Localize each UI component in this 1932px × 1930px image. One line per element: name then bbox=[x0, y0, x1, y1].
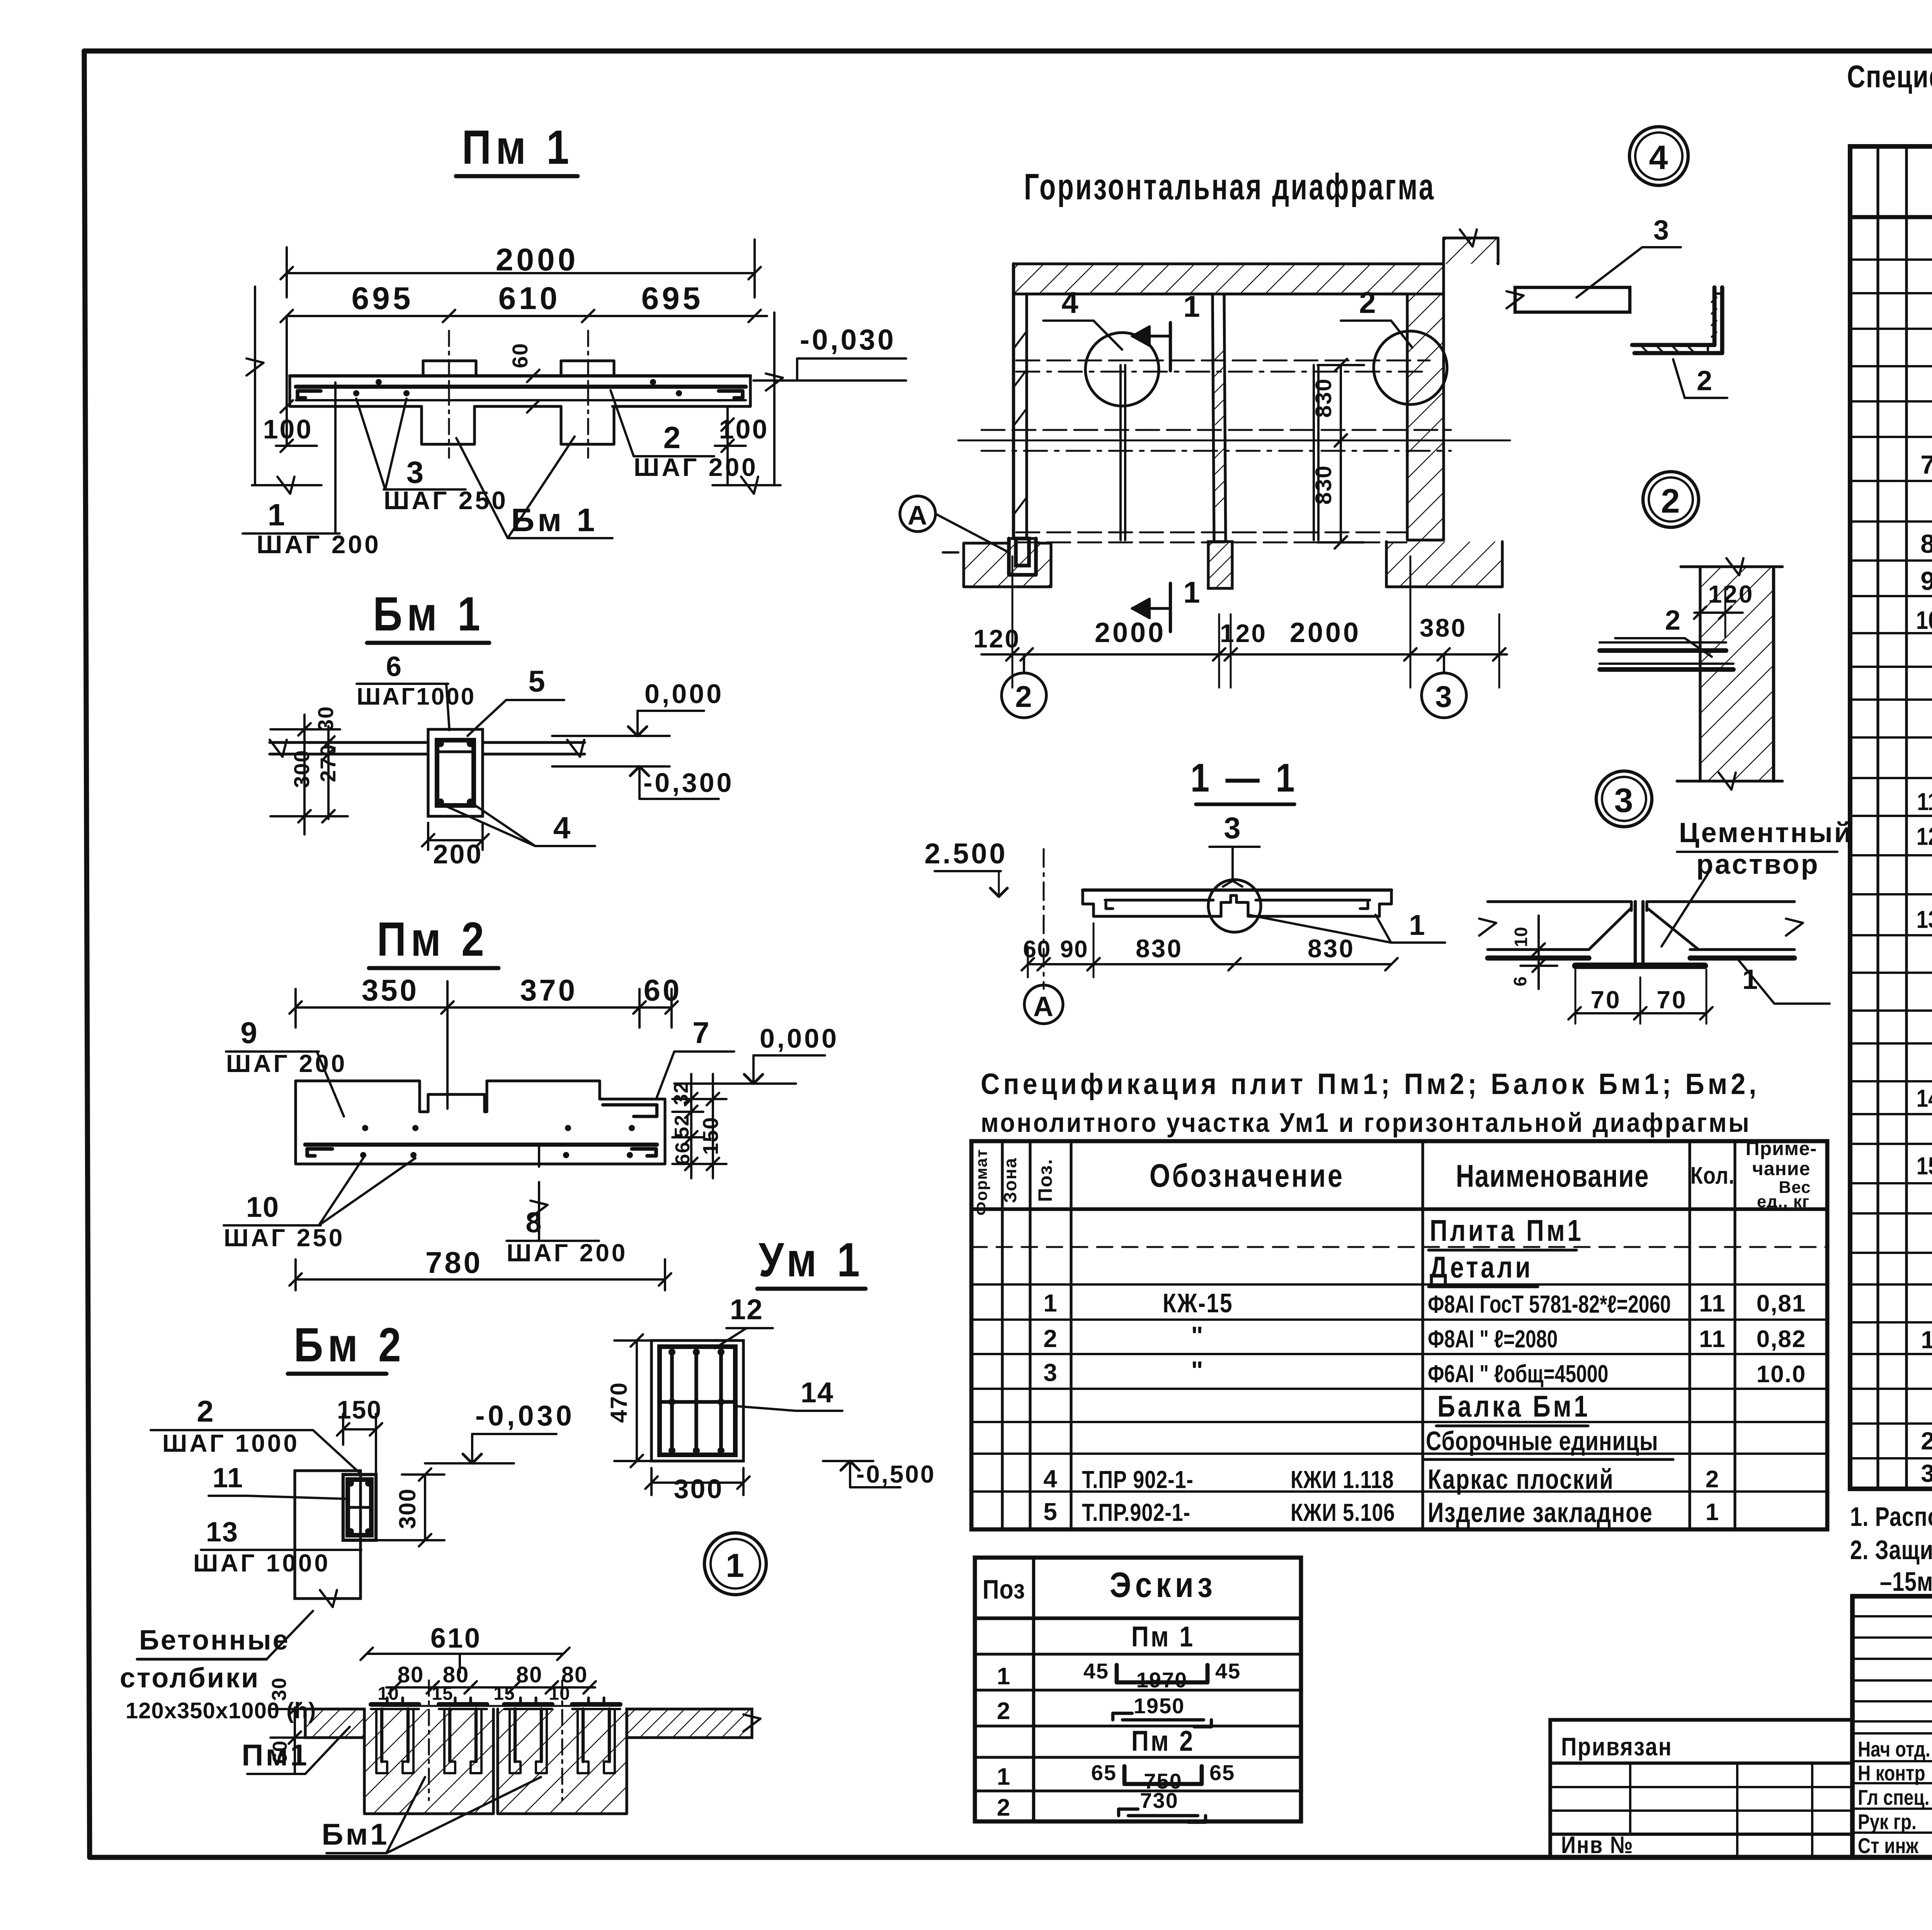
section 1-1 slab plates bbox=[1083, 890, 1391, 916]
label Бм1 detail bbox=[321, 1777, 541, 1853]
svg-text:КЖИ 5.106: КЖИ 5.106 bbox=[1291, 1499, 1395, 1526]
big row 9 bbox=[1920, 566, 1932, 596]
detail dims 30 60 left bbox=[268, 1677, 321, 1773]
svg-text:Н контр: Н контр bbox=[1858, 1761, 1925, 1785]
big row 12 изделие закладное МН557 bbox=[1917, 814, 1932, 857]
svg-text:Детали: Детали bbox=[1430, 1250, 1533, 1284]
detail 4 plate bbox=[1507, 287, 1630, 312]
svg-text:Пм 1: Пм 1 bbox=[1131, 1621, 1195, 1653]
level 0,000 bbox=[552, 679, 724, 736]
svg-text:695: 695 bbox=[641, 281, 704, 316]
svg-text:10.0: 10.0 bbox=[1757, 1361, 1806, 1388]
svg-text:14: 14 bbox=[1917, 1084, 1932, 1112]
svg-text:-0,030: -0,030 bbox=[800, 323, 896, 356]
svg-text:КЖИ 1.118: КЖИ 1.118 bbox=[1291, 1466, 1394, 1493]
anchor embed 1 in beam Бм1 bbox=[371, 1698, 419, 1773]
label 1 section 1-1 bbox=[1248, 909, 1445, 943]
cement joint mortar wedge left bbox=[1589, 908, 1631, 950]
detail mark circle 4 bbox=[1629, 127, 1688, 185]
svg-text:200: 200 bbox=[433, 839, 483, 869]
label 2 ШАГ 1000 Бм2 bbox=[151, 1394, 359, 1473]
plate Пм1 top stub left bbox=[423, 361, 476, 376]
svg-text:3: 3 bbox=[1043, 1359, 1058, 1386]
svg-text:70: 70 bbox=[1590, 986, 1621, 1014]
svg-text:2: 2 bbox=[1359, 285, 1376, 319]
svg-text:ШАГ 250: ШАГ 250 bbox=[224, 1224, 345, 1252]
section mark 1 bottom bbox=[1132, 575, 1201, 632]
cement joint dims 6 10 bbox=[1510, 916, 1557, 989]
svg-text:15: 15 bbox=[432, 1684, 453, 1704]
svg-text:150: 150 bbox=[698, 1116, 723, 1155]
level -0,300 bbox=[552, 766, 734, 799]
svg-text:1: 1 bbox=[268, 498, 286, 532]
svg-text:830: 830 bbox=[1308, 934, 1355, 963]
detail mark circle 1 bbox=[704, 1533, 766, 1595]
plate Пм1 slab outline bbox=[290, 376, 750, 406]
svg-text:610: 610 bbox=[498, 281, 561, 316]
svg-text:2: 2 bbox=[1665, 605, 1681, 636]
svg-text:10: 10 bbox=[549, 1684, 570, 1704]
label 14 Ум1 bbox=[736, 1376, 842, 1411]
svg-text:Бетонные: Бетонные bbox=[139, 1625, 290, 1656]
svg-text:2: 2 bbox=[997, 1698, 1011, 1724]
detail beam Бм1 right hatched bbox=[498, 1709, 627, 1814]
svg-text:1: 1 bbox=[997, 1764, 1011, 1790]
svg-text:100: 100 bbox=[719, 414, 769, 444]
svg-text:Ф8АI " ℓ=2080: Ф8АI " ℓ=2080 bbox=[1428, 1325, 1558, 1353]
svg-text:15: 15 bbox=[1917, 1152, 1932, 1180]
note 2 защитный слой bbox=[1850, 1535, 1932, 1565]
centerline stub right bbox=[587, 331, 589, 458]
plan footing right hatched bbox=[1386, 542, 1502, 587]
svg-text:695: 695 bbox=[352, 281, 414, 316]
svg-text:Приме-: Приме- bbox=[1746, 1138, 1817, 1159]
svg-text:Зона: Зона bbox=[1000, 1157, 1020, 1203]
plan middle wall bbox=[1213, 294, 1226, 540]
detail centerline right beam bbox=[561, 1680, 563, 1800]
svg-text:2.500: 2.500 bbox=[924, 838, 1007, 870]
svg-text:3: 3 bbox=[1614, 781, 1634, 819]
plate Пм1 view title bbox=[456, 121, 578, 176]
svg-text:830: 830 bbox=[1311, 378, 1336, 418]
dim 300 Бм2 bbox=[371, 1468, 444, 1546]
svg-text:12: 12 bbox=[730, 1293, 763, 1325]
big row 11 каркас bbox=[1917, 786, 1932, 817]
plan detail circle at 4 bbox=[1043, 285, 1159, 406]
svg-text:-0,500: -0,500 bbox=[856, 1460, 935, 1488]
svg-text:Горизонтальная диафрагма: Горизонтальная диафрагма bbox=[1024, 166, 1435, 207]
svg-text:66: 66 bbox=[672, 1141, 694, 1165]
svg-text:13: 13 bbox=[1917, 906, 1932, 933]
big row 2 ГОСТ 8509-72 bbox=[1921, 1426, 1932, 1456]
mid table row Детали bbox=[1429, 1250, 1538, 1287]
plan rebar dashed band top bbox=[1016, 360, 1430, 372]
svg-text:10: 10 bbox=[1511, 926, 1531, 947]
plan vertical tube left room bbox=[1121, 365, 1125, 540]
sketch row 2b: 730 bbox=[997, 1788, 1206, 1822]
section mark 1 top bbox=[1132, 289, 1201, 371]
mid table row Балка Бм1 bbox=[1436, 1390, 1590, 1426]
svg-text:ШАГ 1000: ШАГ 1000 bbox=[193, 1549, 330, 1577]
svg-text:Каркас плоский: Каркас плоский bbox=[1428, 1464, 1614, 1495]
svg-text:30: 30 bbox=[268, 1677, 291, 1701]
sketch table grid bbox=[975, 1558, 1301, 1821]
label 11 Бм2 bbox=[209, 1463, 348, 1499]
svg-text:830: 830 bbox=[1136, 934, 1183, 963]
beam Бм2 rebar cage bbox=[343, 1475, 376, 1540]
note 1 газовые трубки bbox=[1850, 1502, 1932, 1532]
svg-text:Ум 1: Ум 1 bbox=[759, 1233, 864, 1287]
detail 2 label 2 bbox=[1615, 605, 1712, 657]
plan dim 830 830 vertical bbox=[1311, 359, 1364, 549]
label Бм1 leader bbox=[456, 437, 612, 538]
svg-text:380: 380 bbox=[1420, 613, 1467, 642]
label 4 leader Бм1 bbox=[444, 805, 595, 846]
svg-text:ед., кг: ед., кг bbox=[1757, 1192, 1810, 1211]
big spec table title bbox=[1847, 59, 1932, 132]
signature rows texts bbox=[1858, 1737, 1932, 1858]
svg-text:3: 3 bbox=[1653, 215, 1670, 246]
svg-text:Бм1: Бм1 bbox=[321, 1817, 389, 1851]
plate Пм2 view title bbox=[369, 913, 498, 968]
svg-text:Наименование: Наименование bbox=[1456, 1158, 1649, 1194]
svg-text:Пм 1: Пм 1 bbox=[462, 121, 573, 174]
axis А circle section 1-1 bbox=[1024, 985, 1063, 1024]
svg-text:2: 2 bbox=[1043, 1325, 1058, 1352]
svg-text:Гл спец.: Гл спец. bbox=[1858, 1786, 1929, 1809]
svg-text:13: 13 bbox=[206, 1517, 238, 1548]
svg-text:4: 4 bbox=[1649, 138, 1669, 177]
detail 4 label 2 bbox=[1673, 359, 1727, 398]
svg-text:3: 3 bbox=[1224, 811, 1241, 845]
svg-text:ШАГ 200: ШАГ 200 bbox=[507, 1239, 628, 1267]
rebar mesh Пм2 bbox=[305, 1125, 657, 1158]
left dim chain Пм1 bbox=[247, 287, 321, 494]
svg-text:Сборочные единицы: Сборочные единицы bbox=[1426, 1426, 1658, 1456]
mid table row 5 изделие bbox=[1043, 1497, 1719, 1528]
svg-text:КЖ-15: КЖ-15 bbox=[1163, 1288, 1233, 1318]
axis А circle and line bbox=[900, 496, 1009, 552]
plan left wall bbox=[1014, 264, 1027, 539]
plan top wall hatched bbox=[1014, 264, 1444, 294]
label 8 ШАГ 200 Пм2 bbox=[507, 1145, 628, 1267]
svg-text:Пм1: Пм1 bbox=[241, 1738, 309, 1772]
svg-text:0,81: 0,81 bbox=[1757, 1290, 1806, 1317]
svg-text:80: 80 bbox=[516, 1662, 543, 1687]
beam Бм2 section title bbox=[288, 1318, 406, 1374]
svg-text:раствор: раствор bbox=[1696, 849, 1820, 880]
svg-text:4: 4 bbox=[1043, 1465, 1058, 1493]
cement joint dim 70 70 bbox=[1568, 970, 1713, 1024]
dim chain Бм1 30 270 300 bbox=[270, 706, 348, 834]
svg-text:1: 1 bbox=[1706, 1499, 1719, 1526]
svg-text:100: 100 bbox=[263, 414, 313, 444]
grid bubble 3 bbox=[1422, 654, 1466, 718]
sketch table header bbox=[983, 1565, 1216, 1605]
svg-text:Нач отд.: Нач отд. bbox=[1858, 1737, 1930, 1761]
label 13 ШАГ 1000 Бм2 bbox=[193, 1517, 361, 1577]
sketch row Пм 1 bbox=[1131, 1621, 1195, 1653]
svg-text:300: 300 bbox=[674, 1474, 724, 1504]
svg-text:ШАГ 200: ШАГ 200 bbox=[226, 1050, 347, 1077]
plan top right wall corner bbox=[1444, 229, 1498, 264]
Ум1 rebar cage bbox=[660, 1347, 735, 1455]
mid table row Плита Пм1 bbox=[1429, 1214, 1583, 1250]
mid table row Сборочные единицы bbox=[1425, 1426, 1673, 1459]
level -0,030 Бм2 bbox=[425, 1400, 575, 1463]
svg-text:370: 370 bbox=[520, 973, 577, 1007]
beam Бм1 rebar cage bbox=[437, 740, 474, 805]
plan footing middle hatched bbox=[1208, 542, 1232, 588]
svg-text:ШАГ 200: ШАГ 200 bbox=[634, 453, 758, 481]
cement joint slab top surface bbox=[1479, 902, 1803, 936]
label 3 section 1-1 bbox=[1209, 811, 1260, 887]
svg-text:Привязан: Привязан bbox=[1561, 1733, 1672, 1761]
svg-text:12: 12 bbox=[1917, 822, 1932, 850]
big row 7 ГОСТ 8240-72 bbox=[1920, 439, 1932, 484]
svg-text:1. Расположение газовых трубок: 1. Расположение газовых трубок в плите П… bbox=[1850, 1502, 1932, 1532]
big row 10 bbox=[1916, 606, 1932, 634]
svg-text:Рук гр.: Рук гр. bbox=[1858, 1810, 1917, 1834]
slab lines left of beam bbox=[270, 740, 428, 757]
big row 8 bbox=[1920, 529, 1932, 559]
label Цементный раствор bbox=[1662, 817, 1853, 946]
svg-text:1: 1 bbox=[1409, 909, 1425, 941]
signature table grid bbox=[1852, 1596, 1932, 1857]
plan detail circle at 2 bbox=[1341, 285, 1447, 404]
svg-text:120: 120 bbox=[973, 624, 1020, 653]
svg-text:270: 270 bbox=[316, 744, 340, 782]
plan rebar dashed band bottom bbox=[1016, 532, 1406, 542]
svg-text:Обозначение: Обозначение bbox=[1150, 1158, 1344, 1194]
note 2 line 2 bbox=[1880, 1567, 1932, 1597]
detail mark circle 2 bbox=[1643, 472, 1699, 527]
dim 300 Ум1 bbox=[645, 1468, 750, 1504]
anchor embed 2 in beam Бм1 bbox=[439, 1698, 487, 1773]
svg-text:5: 5 bbox=[528, 664, 546, 698]
svg-text:ШАГ 1000: ШАГ 1000 bbox=[162, 1429, 299, 1457]
svg-text:0,82: 0,82 bbox=[1757, 1326, 1806, 1352]
svg-text:А: А bbox=[908, 500, 928, 530]
svg-text:15: 15 bbox=[493, 1684, 515, 1704]
concrete post outline Бм2 bbox=[295, 1471, 361, 1607]
plan right wall hatched bbox=[1407, 294, 1444, 540]
detail slab Пм1 left hatched bbox=[305, 1709, 364, 1738]
svg-text:1: 1 bbox=[997, 1663, 1011, 1690]
svg-text:Пм 2: Пм 2 bbox=[1131, 1725, 1195, 1757]
label 7 leader Пм2 bbox=[657, 1016, 734, 1097]
plan interior room right outline bbox=[1226, 292, 1407, 295]
plan rebar dashed band middle bbox=[958, 430, 1510, 451]
svg-text:11: 11 bbox=[1699, 1326, 1726, 1352]
detail 4 angle profile bbox=[1632, 287, 1722, 353]
svg-text:Кол.: Кол. bbox=[1690, 1162, 1735, 1189]
detail dims 10 15 15 10 bbox=[378, 1684, 580, 1706]
level -0,500 Ум1 bbox=[823, 1460, 935, 1488]
svg-text:10: 10 bbox=[246, 1191, 279, 1223]
svg-text:4: 4 bbox=[553, 810, 571, 845]
detail centerline left beam bbox=[428, 1680, 430, 1800]
sketch row 2: 1950 bbox=[997, 1694, 1211, 1727]
svg-text:-0,300: -0,300 bbox=[643, 768, 734, 798]
big row 3 ГОСТ 103-76 bbox=[1921, 1459, 1932, 1488]
svg-text:2000: 2000 bbox=[1095, 617, 1166, 648]
mid table row 3 bbox=[1043, 1356, 1806, 1388]
svg-text:780: 780 bbox=[425, 1245, 483, 1279]
svg-text:2: 2 bbox=[1015, 680, 1032, 714]
svg-text:-0,030: -0,030 bbox=[475, 1400, 575, 1432]
beam stub below slab left bbox=[422, 406, 474, 444]
svg-text:830: 830 bbox=[1311, 465, 1336, 505]
svg-text:–15мм , в балках – 25мм.: –15мм , в балках – 25мм. bbox=[1880, 1567, 1932, 1597]
svg-text:350: 350 bbox=[362, 973, 419, 1007]
svg-text:6: 6 bbox=[386, 651, 402, 682]
monolithic section Ум1 title bbox=[757, 1233, 866, 1289]
svg-text:Поз: Поз bbox=[983, 1574, 1025, 1604]
svg-text:11: 11 bbox=[213, 1463, 243, 1493]
dim row 695 610 695 bbox=[281, 281, 767, 322]
section 1-1 centerline bbox=[1043, 849, 1045, 989]
dim 200 Бм1 bbox=[422, 823, 489, 869]
svg-text:60: 60 bbox=[508, 343, 532, 368]
mid table row 2 bbox=[1043, 1321, 1806, 1353]
cement joint embedded plates bbox=[1488, 950, 1794, 958]
svg-text:90: 90 bbox=[1060, 936, 1088, 963]
mid table row 4 каркас bbox=[1043, 1464, 1719, 1495]
svg-text:0,000: 0,000 bbox=[760, 1023, 839, 1053]
Привязан box bbox=[1550, 1720, 1852, 1857]
sketch row 1b: 65 750 65 bbox=[997, 1760, 1235, 1793]
mid spec table header texts bbox=[972, 1138, 1817, 1216]
svg-text:9: 9 bbox=[240, 1016, 258, 1050]
label 3 ШАГ 250 bbox=[356, 399, 508, 515]
label 12 Ум1 bbox=[715, 1293, 773, 1348]
svg-text:Инв №: Инв № bbox=[1561, 1832, 1634, 1859]
grid bubble 2 bbox=[1002, 654, 1046, 718]
svg-text:11: 11 bbox=[1917, 788, 1932, 815]
svg-text:Балка Бм1: Балка Бм1 bbox=[1437, 1390, 1590, 1423]
mid spec table title bbox=[981, 1068, 1760, 1138]
svg-text:80: 80 bbox=[398, 1662, 424, 1687]
Инв № cell bbox=[1561, 1832, 1634, 1859]
svg-text:70: 70 bbox=[1656, 986, 1687, 1014]
sketch row 1: 45 1970 45 bbox=[997, 1659, 1241, 1692]
svg-text:45: 45 bbox=[1215, 1659, 1241, 1683]
svg-text:470: 470 bbox=[606, 1382, 632, 1423]
svg-text:4: 4 bbox=[1061, 285, 1079, 319]
svg-text:2: 2 bbox=[1706, 1466, 1719, 1493]
svg-text:1970: 1970 bbox=[1136, 1668, 1188, 1692]
label Бетонные столбики 120х350х1000(h) bbox=[120, 1611, 316, 1723]
svg-text:2: 2 bbox=[663, 420, 682, 455]
cement joint label 1 bbox=[1737, 958, 1830, 1004]
svg-text:Поз.: Поз. bbox=[1034, 1159, 1056, 1202]
Ум1 concrete outline bbox=[651, 1340, 743, 1461]
dim 150 Бм2 bbox=[337, 1395, 382, 1473]
big row 1 ГОСТ 18124-75 bbox=[1921, 1325, 1932, 1354]
svg-text:монолитного участка Ум1 и гори: монолитного участка Ум1 и горизонтальной… bbox=[981, 1108, 1751, 1138]
dims 350 370 60 Пм2 bbox=[289, 973, 682, 1109]
plate Пм2 profile outline bbox=[296, 1081, 665, 1164]
svg-text:9: 9 bbox=[1920, 566, 1932, 596]
svg-text:Бм 1: Бм 1 bbox=[511, 502, 598, 538]
dim 60 small bbox=[508, 343, 539, 413]
svg-text:0,000: 0,000 bbox=[645, 679, 724, 709]
svg-text:2: 2 bbox=[197, 1394, 214, 1428]
svg-text:столбики: столбики bbox=[120, 1663, 260, 1694]
svg-text:6: 6 bbox=[1510, 976, 1530, 987]
slab lines right of beam bbox=[483, 740, 585, 757]
plan title Горизонтальная диафрагма bbox=[1024, 166, 1435, 207]
detail dim 610 bbox=[361, 1623, 570, 1673]
svg-text:Т.ПР.902-1-: Т.ПР.902-1- bbox=[1082, 1499, 1190, 1526]
svg-text:2: 2 bbox=[1697, 365, 1713, 396]
svg-text:3: 3 bbox=[1921, 1459, 1932, 1487]
svg-text:1: 1 bbox=[1921, 1326, 1932, 1354]
label 6 ШАГ 1000 bbox=[357, 651, 476, 730]
svg-text:2: 2 bbox=[1921, 1427, 1932, 1455]
svg-text:7: 7 bbox=[692, 1016, 710, 1050]
dim 780 Пм2 bbox=[289, 1245, 671, 1290]
svg-text:Формат: Формат bbox=[972, 1148, 990, 1215]
label Пм1 detail bbox=[241, 1727, 350, 1774]
plan anchor pocket left footing bbox=[1009, 539, 1036, 575]
svg-text:7: 7 bbox=[1920, 450, 1932, 479]
svg-text:5: 5 bbox=[1043, 1498, 1058, 1526]
rebar mesh lines in Пм1 slab bbox=[296, 379, 746, 400]
level 0,000 Пм2 bbox=[674, 1023, 839, 1084]
title block outer box bbox=[1852, 1596, 1932, 1857]
svg-text:Плита Пм1: Плита Пм1 bbox=[1430, 1214, 1583, 1247]
big row 14 каркас bbox=[1917, 1082, 1932, 1113]
cement joint mortar wedge right bbox=[1647, 908, 1699, 950]
svg-text:1 — 1: 1 — 1 bbox=[1190, 756, 1298, 800]
svg-text:3: 3 bbox=[1435, 680, 1452, 714]
label 9 ШАГ 200 Пм2 bbox=[226, 1016, 347, 1116]
label 1 ШАГ 200 bbox=[243, 382, 381, 559]
plan footing left hatched bbox=[964, 539, 1051, 587]
svg-text:Спецификация плит Пм1; Пм2; Б: Спецификация плит Пм1; Пм2; Балок Бм1; Б… bbox=[1847, 59, 1932, 94]
svg-text:3: 3 bbox=[406, 455, 425, 489]
svg-text:65: 65 bbox=[1209, 1760, 1235, 1785]
mid spec table grid bbox=[971, 1141, 1827, 1529]
dim 470 Ум1 bbox=[606, 1334, 657, 1467]
centerline stub left bbox=[448, 331, 450, 458]
section 1-1 detail circle bbox=[1208, 880, 1261, 932]
svg-text:120х350х1000 (h): 120х350х1000 (h) bbox=[126, 1698, 316, 1723]
svg-text:1: 1 bbox=[726, 1547, 745, 1584]
cement joint tee foot flange bbox=[1575, 963, 1705, 969]
svg-text:ШАГ1000: ШАГ1000 bbox=[357, 683, 476, 710]
level 2.500 bbox=[924, 838, 1007, 897]
svg-text:10: 10 bbox=[1916, 606, 1932, 634]
detail dims 80 80 80 80 bbox=[386, 1662, 596, 1694]
svg-text:Ф6АI " ℓобщ=45000: Ф6АI " ℓобщ=45000 bbox=[1428, 1360, 1608, 1388]
svg-text:Ст инж: Ст инж bbox=[1858, 1834, 1919, 1858]
plan interior room left outline bbox=[1027, 292, 1213, 295]
svg-text:ШАГ 200: ШАГ 200 bbox=[257, 530, 381, 559]
label 5 leader bbox=[468, 664, 564, 736]
svg-text:120: 120 bbox=[1220, 619, 1267, 647]
svg-text:": " bbox=[1191, 1321, 1204, 1350]
svg-text:300: 300 bbox=[289, 749, 314, 788]
right dim chain Пм2 32 52 66 150 bbox=[670, 1074, 726, 1178]
svg-text:11: 11 bbox=[1699, 1290, 1726, 1317]
svg-text:2: 2 bbox=[997, 1794, 1011, 1821]
big row 15 bbox=[1917, 1151, 1932, 1180]
big spec table grid bbox=[1850, 146, 1932, 1489]
dim 2000 bbox=[281, 240, 761, 297]
